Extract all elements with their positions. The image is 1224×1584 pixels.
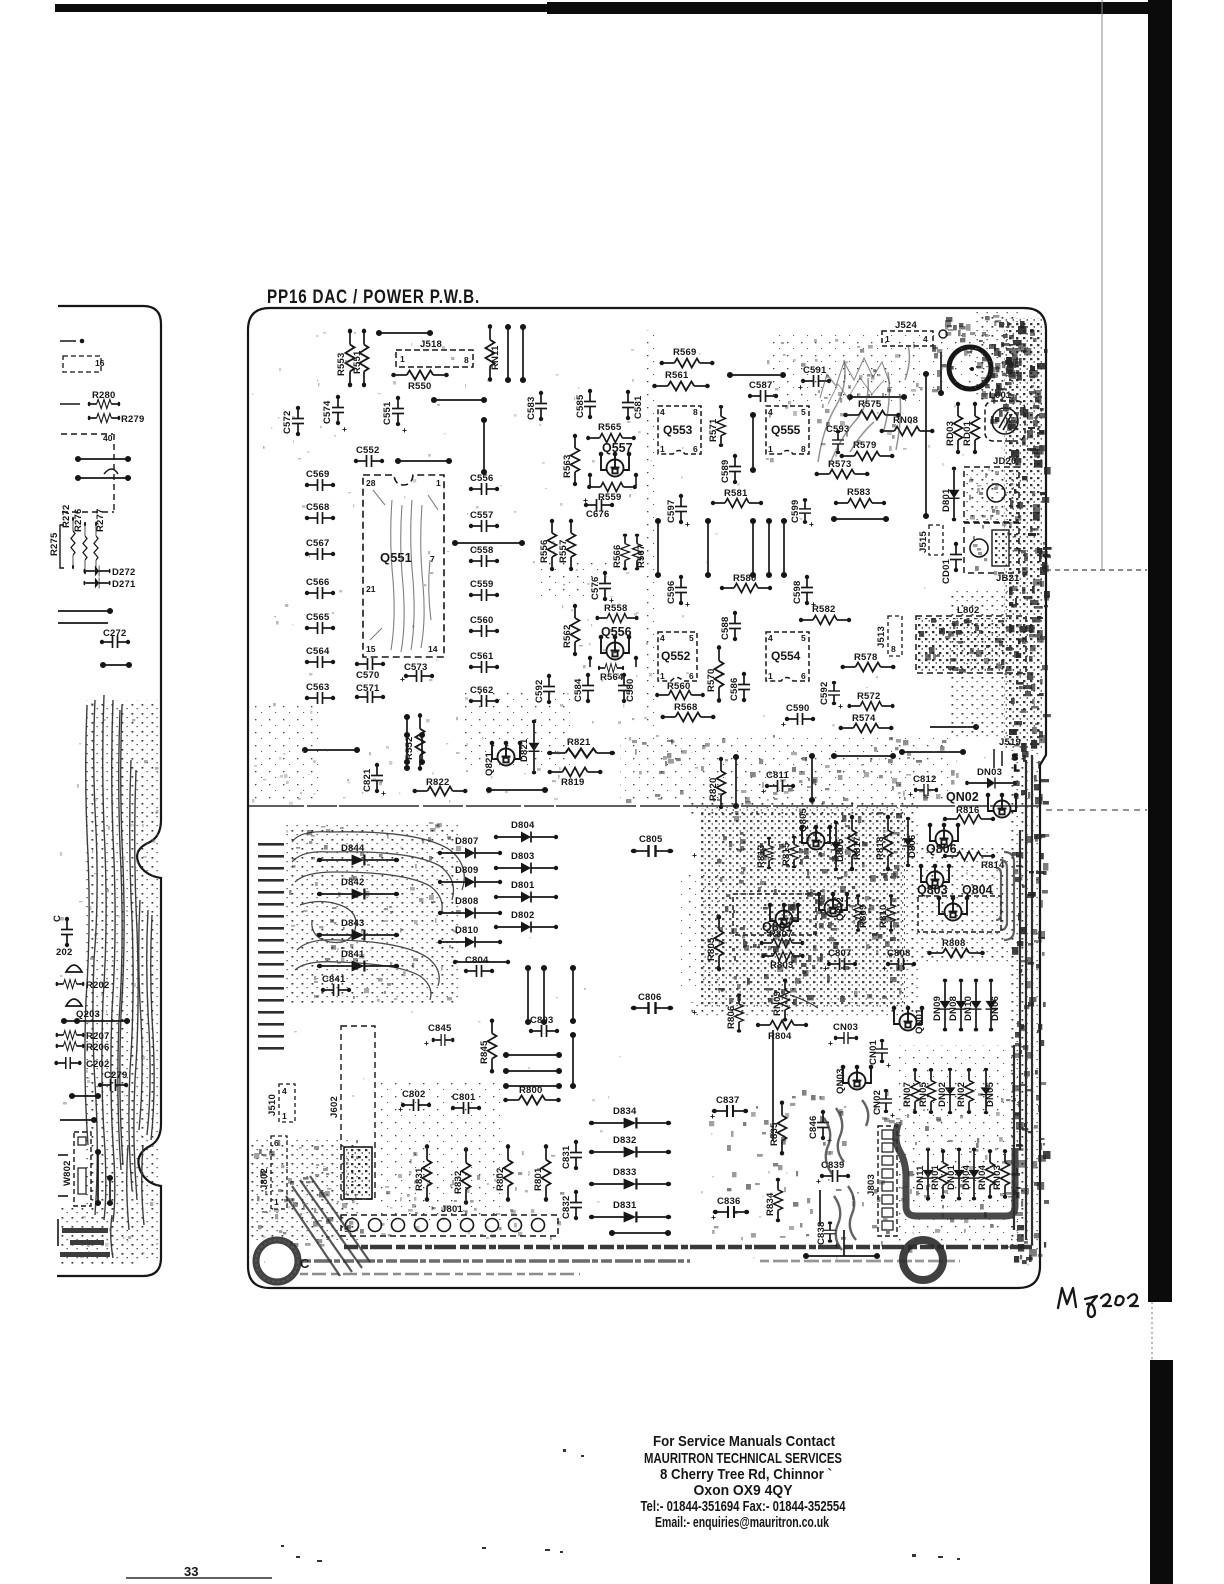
resistor R808: [927, 938, 985, 958]
wire: [62, 1019, 129, 1023]
diode DN04: [961, 1148, 980, 1201]
svg-text:R561: R561: [665, 370, 689, 381]
wire: [58, 622, 108, 624]
svg-text:R821: R821: [567, 737, 591, 748]
wire: [939, 352, 943, 395]
diode D834: [589, 1106, 671, 1129]
resistor R578: [840, 652, 895, 672]
svg-text:R805: R805: [706, 937, 717, 961]
resistor R813: [756, 837, 774, 869]
capacitor C272: [100, 628, 130, 648]
svg-text:R814: R814: [981, 860, 1005, 871]
svg-text:Oxon OX9 4QY: Oxon OX9 4QY: [694, 1482, 793, 1499]
wire: [60, 403, 80, 405]
svg-text:1: 1: [436, 478, 441, 488]
resistor R562: [562, 604, 580, 656]
svg-text:PP16 DAC / POWER P.W.B.: PP16 DAC / POWER P.W.B.: [267, 287, 480, 308]
svg-text:D807: D807: [455, 836, 479, 847]
svg-text:5: 5: [801, 407, 806, 417]
curved ground traces: [292, 832, 464, 1000]
stray specks bottom: [281, 1449, 960, 1562]
transistor QN01: [892, 1006, 925, 1034]
svg-text:+: +: [890, 1110, 895, 1120]
svg-text:Q803: Q803: [917, 883, 948, 897]
diagonal ground traces bottom-left: [286, 1176, 370, 1276]
wire: [101, 663, 131, 667]
svg-text:4: 4: [923, 334, 928, 344]
svg-text:C568: C568: [306, 502, 330, 513]
wire: [70, 1094, 100, 1098]
diode DN05: [981, 1068, 997, 1114]
resistor R556: [539, 519, 557, 571]
resistor R557: [558, 519, 576, 571]
connector J524: [882, 320, 933, 346]
wire: [900, 750, 965, 754]
resistor R571: [708, 405, 726, 447]
capacitor C556: [469, 473, 499, 495]
svg-text:D801: D801: [511, 880, 535, 891]
wire: [810, 754, 814, 802]
capacitor C599: [790, 498, 814, 529]
diode DN01: [946, 1148, 965, 1201]
center speckle blob: [700, 808, 905, 1008]
capacitor C838: [816, 1221, 839, 1250]
resistor R845: [479, 1018, 497, 1073]
svg-text:J510: J510: [267, 1094, 278, 1116]
svg-text:C552: C552: [356, 445, 380, 456]
wire: [58, 609, 112, 613]
svg-text:CN03: CN03: [833, 1022, 858, 1033]
svg-text:R557: R557: [558, 539, 569, 563]
svg-text:R551: R551: [352, 350, 363, 374]
svg-text:R581: R581: [724, 488, 748, 499]
wire: [751, 519, 755, 577]
svg-text:R565: R565: [598, 422, 622, 433]
capacitor C583: [526, 391, 547, 421]
resistor R801: [533, 1144, 551, 1202]
svg-text:C559: C559: [470, 579, 494, 590]
wires above QN01: [790, 995, 818, 1008]
svg-text:+: +: [828, 1038, 833, 1048]
svg-text:R277: R277: [95, 508, 106, 532]
thick ground trace U: [896, 1124, 1015, 1216]
svg-text:R563: R563: [562, 454, 573, 478]
wire: [832, 754, 895, 758]
svg-text:C561: C561: [470, 651, 494, 662]
capacitor C808: [882, 948, 916, 973]
svg-text:RD03: RD03: [945, 421, 956, 446]
svg-text:C556: C556: [470, 473, 494, 484]
svg-text:CD01: CD01: [941, 558, 952, 584]
svg-text:DN09: DN09: [932, 996, 943, 1021]
inductor L001: [985, 390, 1025, 441]
svg-text:J515: J515: [918, 531, 929, 553]
connector J515: [918, 525, 943, 555]
capacitor C802: [398, 1089, 431, 1114]
svg-text:4: 4: [660, 407, 665, 417]
trace bends right of Q804: [996, 852, 1014, 940]
resistor R802: [495, 1144, 513, 1202]
svg-text:R202: R202: [86, 980, 110, 991]
svg-text:8 Cherry Tree Rd, Chinnor `: 8 Cherry Tree Rd, Chinnor `: [660, 1466, 832, 1483]
svg-text:Q806: Q806: [926, 842, 957, 856]
svg-text:J513: J513: [876, 626, 887, 648]
resistor R815: [781, 836, 799, 868]
left edge tiny rotated text rows: [258, 843, 284, 1050]
svg-text:C599: C599: [790, 499, 801, 523]
resistor RN02: [956, 1068, 974, 1114]
svg-text:1: 1: [768, 444, 773, 454]
handwritten M7202: [1058, 1288, 1138, 1317]
svg-text:W802: W802: [62, 1160, 73, 1186]
capacitor C811: [761, 770, 795, 796]
svg-text:Q555: Q555: [771, 423, 801, 437]
connector J510: [267, 1084, 295, 1122]
svg-text:R810: R810: [878, 904, 889, 928]
resistor R816: [943, 805, 995, 824]
capacitor C821: [362, 763, 386, 798]
svg-text:1: 1: [660, 671, 665, 681]
svg-text:6: 6: [801, 671, 806, 681]
svg-text:D810: D810: [455, 925, 479, 936]
svg-text:C571: C571: [356, 683, 380, 694]
capacitor C562: [469, 685, 499, 707]
svg-text:R570: R570: [706, 668, 717, 692]
resistor R804: [756, 1021, 808, 1043]
wire: [76, 457, 130, 461]
diode D271: [83, 578, 136, 591]
inductor L802: [916, 605, 1026, 673]
svg-text:D832: D832: [613, 1135, 637, 1146]
svg-text:QN02: QN02: [946, 790, 979, 804]
noise text bottom left board: [60, 1228, 110, 1257]
svg-text:+: +: [381, 788, 386, 798]
resistor R821: [547, 737, 615, 758]
capacitor C596: [666, 575, 690, 609]
connector J803: [866, 1126, 897, 1236]
svg-text:C580: C580: [625, 678, 636, 702]
trace texture left board: [85, 695, 154, 1258]
svg-text:D801: D801: [941, 488, 952, 512]
diode D843: [317, 918, 399, 941]
capacitor C804: [453, 955, 510, 977]
svg-text:D833: D833: [613, 1167, 637, 1178]
svg-text:R816: R816: [956, 805, 980, 816]
svg-text:+: +: [583, 495, 588, 505]
svg-text:C831: C831: [561, 1145, 572, 1169]
resistor R583: [834, 487, 886, 508]
svg-text:+: +: [781, 719, 786, 729]
capacitor C279: [98, 1070, 128, 1091]
svg-text:+: +: [809, 519, 814, 529]
svg-text:R807: R807: [769, 929, 793, 940]
resistor R574: [838, 713, 893, 733]
transistor QN02: [946, 790, 1018, 818]
wire: [571, 1033, 575, 1088]
svg-text:R279: R279: [121, 414, 145, 425]
wire: [405, 715, 409, 770]
resistor R809: [854, 894, 870, 932]
capacitor C563: [305, 682, 335, 704]
svg-text:8: 8: [464, 355, 469, 365]
resistor R800: [503, 1085, 561, 1105]
capacitor C587: [748, 380, 778, 402]
wire: [610, 1231, 670, 1235]
capacitor C589: [720, 454, 741, 484]
capacitor C564: [305, 646, 335, 668]
resistor R272: [61, 504, 75, 569]
svg-text:Q557: Q557: [602, 441, 633, 455]
connector J602: [329, 1026, 375, 1199]
svg-text:QN03: QN03: [835, 1068, 846, 1094]
capacitor C832: [561, 1190, 582, 1220]
svg-text:+: +: [685, 599, 690, 609]
svg-text:40: 40: [103, 433, 113, 443]
capacitor C839: [816, 1160, 850, 1186]
resistor R563: [562, 434, 580, 486]
svg-text:+: +: [838, 701, 843, 711]
capacitor C561: [469, 651, 499, 673]
svg-text:J518: J518: [420, 339, 442, 350]
capacitor CD01: [941, 542, 962, 584]
resistor R565: [586, 422, 636, 443]
dashed stub top: [60, 340, 82, 342]
transistor QN03: [835, 1065, 873, 1094]
wire pair below Q551: [405, 733, 424, 764]
diode D832: [589, 1135, 671, 1158]
capacitor C806: [631, 992, 697, 1017]
wire: [542, 966, 546, 1024]
svg-text:C821: C821: [362, 768, 373, 792]
wire: [521, 325, 525, 382]
svg-text:C583: C583: [526, 396, 537, 420]
svg-text:C838: C838: [816, 1221, 827, 1245]
svg-text:6: 6: [693, 444, 698, 454]
wire: [487, 788, 547, 792]
connector JB21: [964, 523, 1020, 584]
wire: [504, 1069, 561, 1073]
resistor R817: [848, 815, 864, 872]
svg-text:C569: C569: [306, 469, 330, 480]
capacitor C590: [781, 703, 815, 729]
svg-text:Q805: Q805: [798, 807, 809, 832]
capacitor C574: [322, 395, 347, 434]
capacitor C559: [469, 579, 499, 601]
svg-text:+: +: [342, 424, 347, 434]
wire: [76, 476, 130, 480]
svg-text:C565: C565: [306, 612, 330, 623]
wire: [767, 519, 771, 577]
resistor R575: [843, 399, 901, 420]
capacitor C580: [618, 673, 636, 703]
svg-text:Q804: Q804: [962, 883, 993, 897]
dashed vertical: [113, 434, 115, 512]
capacitor C581: [622, 390, 644, 420]
svg-text:C837: C837: [716, 1095, 740, 1106]
top center traces scribble: [770, 335, 920, 405]
mounting hole C: [256, 1240, 298, 1282]
diode DN06: [986, 979, 1002, 1032]
diode D806: [903, 817, 919, 867]
capacitor C592b: [819, 681, 843, 711]
svg-text:RD01: RD01: [962, 420, 973, 446]
svg-text:R553: R553: [336, 352, 347, 376]
resistor R279: [88, 414, 145, 426]
svg-text:CN02: CN02: [872, 1090, 883, 1115]
capacitor C831: [561, 1140, 582, 1170]
diode DN03: [965, 767, 1017, 789]
right scanner bar upper: [1148, 0, 1172, 1302]
svg-text:RN11: RN11: [490, 345, 501, 370]
svg-text:C567: C567: [306, 538, 330, 549]
resistor R582: [799, 604, 851, 625]
wire: [782, 519, 786, 577]
svg-text:1: 1: [660, 444, 665, 454]
svg-text:DN08: DN08: [948, 996, 959, 1021]
svg-text:5: 5: [689, 633, 694, 643]
capacitor C570: [355, 658, 385, 681]
trace squiggles left of J803: [824, 1100, 868, 1250]
svg-text:R556: R556: [539, 539, 550, 563]
svg-text:15: 15: [366, 644, 376, 654]
diode D809: [438, 865, 502, 888]
resistor R820: [708, 757, 726, 809]
svg-text:C806: C806: [638, 992, 662, 1003]
connector JD20: [964, 456, 1019, 522]
svg-text:33: 33: [184, 1564, 198, 1579]
svg-text:J524: J524: [895, 320, 917, 331]
svg-text:C841: C841: [322, 974, 346, 985]
capacitor C593: [826, 424, 850, 454]
wire: [734, 755, 738, 808]
svg-text:C804: C804: [465, 955, 489, 966]
svg-text:R580: R580: [733, 573, 757, 584]
capacitor C568: [305, 502, 335, 524]
scan blotch noise: [254, 315, 1052, 1266]
capacitor C558: [469, 545, 499, 567]
wire: [848, 395, 906, 399]
svg-text:Q556: Q556: [601, 625, 632, 639]
capacitor C551: [382, 396, 407, 435]
bottom hatch stripes: [300, 1247, 1033, 1274]
dashed box 16: [63, 356, 101, 372]
divider dash extension to bar: [1046, 809, 1147, 811]
wire: [751, 413, 755, 472]
resistor R558: [596, 603, 639, 623]
svg-text:DN03: DN03: [977, 767, 1002, 778]
transistor Q803: [917, 864, 951, 897]
svg-text:C: C: [300, 1256, 310, 1271]
svg-text:C836: C836: [717, 1196, 741, 1207]
capacitor CN03: [828, 1022, 858, 1048]
wire: [506, 325, 510, 382]
wire: [656, 519, 660, 577]
svg-text:R276: R276: [73, 508, 84, 532]
svg-text:R800: R800: [519, 1085, 543, 1096]
resistor RN08: [879, 415, 934, 436]
capacitor C552: [354, 445, 384, 467]
resistor R819: [547, 768, 602, 789]
svg-text:+: +: [882, 963, 887, 973]
resistor R280: [88, 390, 120, 409]
bracket R275: [60, 525, 64, 568]
wire: [504, 1053, 561, 1057]
svg-text:Q802: Q802: [835, 897, 846, 921]
diode D801: [494, 880, 558, 903]
svg-text:C585: C585: [575, 394, 586, 418]
capacitor C566: [305, 577, 335, 599]
resistor R277: [94, 508, 106, 574]
transistor Q802: [817, 892, 850, 921]
svg-text:R578: R578: [854, 652, 878, 663]
svg-text:+: +: [424, 1038, 429, 1048]
svg-text:C839: C839: [821, 1160, 845, 1171]
resistor R834: [765, 1178, 783, 1223]
wire: [432, 398, 486, 402]
diode D810: [438, 925, 502, 948]
capacitor C585: [575, 389, 596, 419]
diode D842: [317, 877, 399, 900]
svg-text:R804: R804: [768, 1031, 792, 1042]
capacitor C597: [666, 494, 690, 529]
svg-text:Q552: Q552: [661, 649, 691, 663]
transistor Q202: [66, 965, 82, 972]
svg-text:8: 8: [891, 644, 896, 654]
svg-text:R207: R207: [86, 1031, 110, 1042]
svg-text:C279: C279: [104, 1070, 128, 1081]
resistor RN01: [930, 1149, 948, 1199]
wire: [504, 1084, 561, 1088]
IC Q553: [658, 406, 701, 454]
svg-text:8: 8: [693, 407, 698, 417]
capacitor C572: [282, 406, 304, 436]
connector J513: [876, 616, 902, 656]
svg-text:C574: C574: [322, 400, 333, 424]
svg-text:R818: R818: [875, 836, 886, 860]
svg-text:21: 21: [366, 584, 376, 594]
capacitor C565: [305, 612, 335, 634]
thin line left of bar top: [1101, 0, 1103, 570]
wire: [526, 966, 530, 1024]
svg-text:R583: R583: [847, 487, 871, 498]
svg-text:+: +: [886, 1060, 891, 1070]
svg-text:Q203: Q203: [76, 1009, 100, 1020]
resistor R567: [633, 534, 648, 571]
svg-text:R572: R572: [857, 691, 881, 702]
resistor R568: [660, 702, 715, 722]
diode D802: [494, 910, 558, 933]
svg-text:C807: C807: [828, 948, 852, 959]
right edge traces: [1014, 755, 1032, 1245]
capacitor C571: [355, 683, 385, 703]
svg-text:RN08: RN08: [893, 415, 918, 426]
diode D803: [494, 851, 558, 874]
svg-text:R566: R566: [612, 544, 623, 568]
svg-text:8: 8: [801, 444, 806, 454]
diode D805: [831, 821, 847, 871]
wire: [453, 541, 524, 545]
svg-text:C598: C598: [792, 580, 803, 604]
resistor R566: [612, 534, 630, 571]
svg-text:C676: C676: [586, 509, 610, 520]
resistor R581: [711, 488, 763, 508]
svg-text:C584: C584: [573, 678, 584, 702]
resistor R572: [847, 691, 894, 711]
capacitor C598: [792, 575, 816, 609]
svg-text:R813: R813: [756, 844, 767, 868]
capacitor CN02: [872, 1089, 895, 1120]
resistor R818: [875, 815, 893, 872]
